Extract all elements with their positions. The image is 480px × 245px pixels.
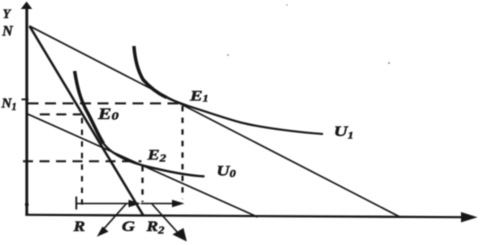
- dashed vertical below E0: [81, 118, 83, 210]
- x-axis: [25, 212, 477, 222]
- svg-text:R: R: [72, 219, 85, 234]
- svg-text:R2: R2: [145, 219, 164, 236]
- tick on y-axis at arrow-line level: [25, 203, 29, 206]
- budget line N-R (steep): [30, 26, 144, 216]
- y-axis: [21, 2, 32, 216]
- indifference curve U0 lower tail through E2: [104, 144, 205, 177]
- svg-text:U0: U0: [217, 162, 237, 180]
- horizontal measure arrow G to R2: [141, 200, 185, 207]
- budget line N to x-intercept 400 (shallow, through E1): [30, 26, 401, 217]
- compensated budget line from N1 level to x-intercept 257 (through E2): [27, 114, 258, 218]
- svg-text:N: N: [1, 23, 13, 39]
- indifference curve U1 upper branch: [134, 46, 167, 98]
- horizontal measure arrow R to G: [76, 200, 141, 207]
- indifference curve U0 upper branch: [75, 71, 104, 144]
- dashed horizontal N1-E1: [28, 102, 182, 104]
- svg-text:G: G: [122, 218, 135, 235]
- tick on y-axis at N1: [22, 98, 29, 100]
- leader arrow down-left (below G): [97, 204, 126, 237]
- svg-text:E1: E1: [189, 88, 209, 105]
- svg-text:U1: U1: [334, 123, 354, 141]
- scan speck top middle: [286, 4, 288, 6]
- scan speck near top right of U1: [388, 62, 390, 64]
- svg-text:E2: E2: [146, 146, 166, 164]
- dashed vertical below E2: [141, 166, 143, 202]
- dashed vertical below E1: [181, 106, 183, 199]
- indifference curve U1 lower tail through E1: [167, 98, 324, 135]
- leader arrow down-right (below R2): [152, 204, 187, 242]
- svg-text:Y: Y: [3, 7, 12, 21]
- start tick of horizontal measure arrow: [75, 197, 77, 210]
- scan speck above E1: [227, 54, 229, 56]
- svg-text:E0: E0: [97, 105, 119, 122]
- dashed horizontal short at E0 level: [40, 113, 81, 115]
- svg-text:N1: N1: [1, 97, 17, 114]
- dashed horizontal at E2 level: [23, 160, 142, 162]
